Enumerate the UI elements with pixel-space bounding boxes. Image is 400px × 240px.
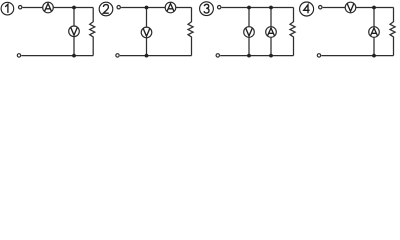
- circuit 3 top junction node 1: [247, 6, 251, 10]
- circuit 1 bottom junction node: [72, 54, 76, 58]
- circuit 4 resistor R (right branch): [390, 8, 395, 56]
- circuit 2 bottom wire: [120, 55, 192, 57]
- circuit 3 number label (3): [200, 2, 214, 16]
- circuit 3 bottom terminal: [216, 54, 219, 57]
- circuit 1 voltmeter V: [69, 26, 80, 37]
- circuit 1 top wire: [23, 7, 94, 9]
- circuit 1 top junction node: [72, 6, 76, 10]
- circuit 1 bottom terminal: [17, 54, 20, 57]
- circuit 1 bottom wire: [21, 55, 93, 57]
- circuit 4 bottom junction node: [372, 54, 376, 58]
- circuit 3 ammeter branch wire: [270, 8, 272, 56]
- circuit 1 ammeter A: [43, 2, 54, 13]
- circuit 3 voltmeter branch wire: [248, 8, 250, 56]
- circuit 3 bottom junction node 2: [269, 54, 273, 58]
- circuit 1 top terminal: [19, 6, 22, 9]
- circuit 3 ammeter A: [266, 27, 277, 38]
- circuit 3 top junction node 2: [269, 6, 273, 10]
- circuit 4 ammeter A: [369, 27, 380, 38]
- circuit 2 voltmeter branch wire: [146, 8, 148, 56]
- circuit 2 voltmeter V: [141, 27, 152, 38]
- circuit 2 ammeter A: [165, 2, 176, 13]
- circuit 3 top wire: [222, 7, 294, 9]
- circuit 3 bottom wire: [220, 55, 293, 57]
- circuit 2 bottom terminal: [116, 54, 119, 57]
- circuit 2 bottom junction node: [145, 54, 149, 58]
- circuit 2 top junction node: [145, 6, 149, 10]
- circuit 2 top terminal: [117, 6, 120, 9]
- circuit 3 bottom junction node 1: [247, 54, 251, 58]
- circuit 4 top terminal: [319, 6, 322, 9]
- circuit 2 number label (2): [99, 2, 113, 16]
- circuit 4 bottom wire: [321, 55, 393, 57]
- circuit 4 ammeter branch wire: [373, 8, 375, 56]
- circuit 1 resistor R (right branch): [90, 8, 95, 56]
- circuit 3 resistor R (right branch): [290, 8, 295, 56]
- circuit 4 top wire: [323, 7, 394, 9]
- circuit 4 top junction node: [372, 6, 376, 10]
- circuit 2 resistor R (right branch): [188, 8, 193, 56]
- circuit 3 voltmeter V: [244, 27, 255, 38]
- circuit 1 voltmeter branch wire: [73, 8, 75, 56]
- circuit 2 top wire: [121, 7, 191, 9]
- circuit 4 number label (4): [300, 2, 314, 16]
- circuit 3 top terminal: [218, 6, 221, 9]
- circuit 4 voltmeter V: [345, 2, 356, 13]
- circuit 4 bottom terminal: [317, 54, 320, 57]
- circuit 1 number label (1): [1, 2, 14, 15]
